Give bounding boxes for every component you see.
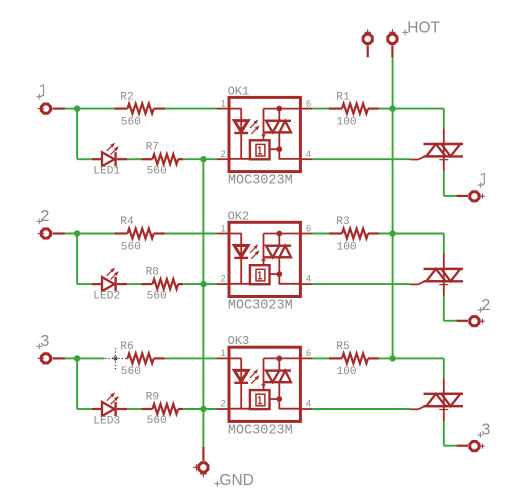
svg-text:OK1: OK1	[228, 84, 250, 98]
svg-text:R7: R7	[146, 142, 159, 154]
svg-text:LED3: LED3	[93, 415, 120, 427]
svg-text:2: 2	[221, 399, 226, 409]
svg-text:R9: R9	[146, 392, 159, 404]
svg-text:3: 3	[40, 333, 50, 351]
svg-text:LED1: LED1	[93, 166, 120, 178]
svg-text:4: 4	[306, 274, 311, 284]
svg-text:560: 560	[147, 290, 167, 302]
svg-text:R5: R5	[336, 341, 349, 353]
svg-text:GND: GND	[219, 472, 253, 489]
svg-text:100: 100	[337, 241, 357, 253]
svg-text:3: 3	[481, 422, 491, 440]
svg-text:MOC3023M: MOC3023M	[228, 174, 293, 189]
svg-text:R8: R8	[146, 267, 159, 279]
svg-text:1: 1	[221, 98, 226, 108]
svg-text:R6: R6	[120, 341, 133, 353]
svg-text:R2: R2	[120, 91, 133, 103]
svg-text:100: 100	[337, 366, 357, 378]
svg-text:6: 6	[306, 98, 311, 108]
svg-text:LED2: LED2	[93, 290, 120, 302]
svg-text:MOC3023M: MOC3023M	[228, 423, 293, 438]
svg-text:560: 560	[147, 165, 167, 177]
svg-text:6: 6	[306, 348, 311, 358]
svg-text:2: 2	[40, 208, 50, 226]
svg-text:MOC3023M: MOC3023M	[228, 299, 293, 314]
svg-text:560: 560	[121, 241, 141, 253]
svg-text:OK3: OK3	[228, 334, 250, 348]
svg-text:OK2: OK2	[228, 209, 250, 223]
svg-text:100: 100	[337, 116, 357, 128]
svg-text:1: 1	[221, 223, 226, 233]
svg-text:R4: R4	[120, 216, 134, 228]
svg-text:560: 560	[147, 415, 167, 427]
svg-text:1: 1	[221, 348, 226, 358]
svg-text:HOT: HOT	[407, 20, 440, 37]
svg-text:2: 2	[221, 149, 226, 159]
svg-text:R1: R1	[336, 91, 350, 103]
svg-text:4: 4	[306, 149, 311, 159]
svg-text:R3: R3	[336, 216, 349, 228]
svg-text:6: 6	[306, 223, 311, 233]
svg-text:2: 2	[481, 297, 491, 315]
svg-text:560: 560	[121, 366, 141, 378]
svg-text:2: 2	[221, 274, 226, 284]
svg-text:560: 560	[121, 116, 141, 128]
svg-text:4: 4	[306, 399, 311, 409]
